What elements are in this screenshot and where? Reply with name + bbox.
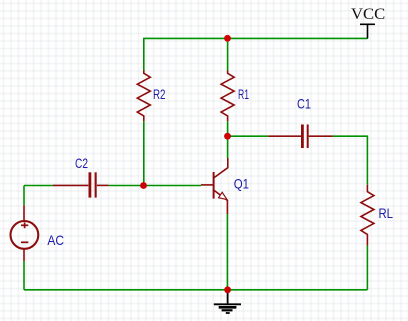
svg-text:VCC: VCC — [351, 6, 385, 23]
svg-text:RL: RL — [379, 205, 394, 221]
svg-text:Q1: Q1 — [234, 176, 249, 192]
svg-text:R2: R2 — [153, 86, 166, 102]
svg-text:R1: R1 — [238, 86, 249, 102]
svg-text:C1: C1 — [297, 95, 311, 111]
svg-text:AC: AC — [47, 232, 64, 248]
svg-text:C2: C2 — [75, 155, 88, 171]
